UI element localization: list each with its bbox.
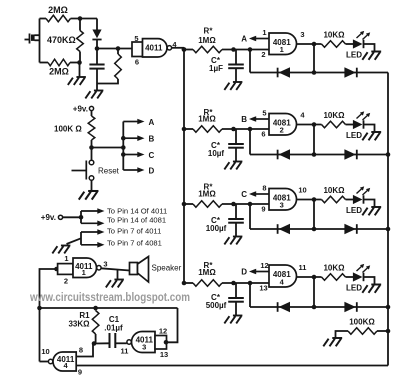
op-amp U2b 4081 AND gate 2 xyxy=(269,114,297,136)
svg-text:100KΩ: 100KΩ xyxy=(349,318,375,327)
svg-text:13: 13 xyxy=(259,284,267,293)
label To Pin 14 of 4081 xyxy=(107,216,166,225)
diode feedback left stage C xyxy=(278,224,290,234)
node dot cap tap stage C xyxy=(231,202,236,207)
svg-text:3: 3 xyxy=(142,343,146,352)
label .01uf xyxy=(104,324,123,333)
wire rail to R* stage D xyxy=(184,282,193,284)
op-amp U2d 4081 AND gate 4 xyxy=(269,265,297,287)
svg-text:D: D xyxy=(149,167,155,176)
node dot under 100K xyxy=(89,145,94,150)
label +9v top xyxy=(73,105,88,114)
label 1M ohm stage D xyxy=(198,268,216,277)
svg-text:11: 11 xyxy=(121,347,129,356)
node dot feedback tap stage D xyxy=(248,281,253,286)
label 100K ohm bottom xyxy=(349,318,375,327)
arrow to B xyxy=(123,135,144,141)
pin label 3 stage A xyxy=(300,30,304,39)
op-amp U1d 4011 NAND gate 4 xyxy=(48,352,76,371)
wire gate output stage D xyxy=(297,276,322,278)
svg-text:To Pin 14 Of 4011: To Pin 14 Of 4011 xyxy=(107,207,167,216)
wire 100K to branch xyxy=(92,147,124,149)
label C* value stage D xyxy=(206,301,227,310)
svg-text:1: 1 xyxy=(262,28,266,37)
pin label 9 stage C xyxy=(261,205,265,214)
label R* stage B xyxy=(204,108,214,117)
wire 100K left to ground xyxy=(336,331,349,338)
svg-text:33KΩ: 33KΩ xyxy=(68,320,90,329)
wire bottom branch xyxy=(40,62,81,64)
node dot rail right stage D xyxy=(386,305,391,310)
wire feedback line stage C xyxy=(250,228,388,230)
wire split bar bottom xyxy=(80,232,82,245)
node dot rail stage D xyxy=(182,281,187,286)
label 1M ohm stage A xyxy=(198,36,216,45)
node dot rail stage B xyxy=(182,127,187,132)
label R* stage D xyxy=(204,261,214,270)
resistor R input vertical xyxy=(97,49,121,84)
LED stage A xyxy=(353,39,364,48)
LED arrows stage D xyxy=(357,264,371,273)
label A xyxy=(149,118,155,127)
node dot bottom xyxy=(77,60,82,65)
LED stage B xyxy=(353,120,364,129)
label C* value stage A xyxy=(209,64,223,73)
wire gate output stage B xyxy=(297,124,322,126)
capacitor C* stage A xyxy=(228,50,244,83)
svg-text:A: A xyxy=(149,118,155,127)
pin label 4 xyxy=(172,40,177,49)
resistor R top 2M xyxy=(46,15,71,22)
arrow to pin7 4081 xyxy=(81,242,105,248)
svg-text:5: 5 xyxy=(262,109,266,118)
ground LED stage D xyxy=(362,285,381,293)
label To Pin 7 of 4081 xyxy=(107,239,162,248)
svg-text:.01µf: .01µf xyxy=(104,324,123,333)
node dot feedback mid stage D xyxy=(312,305,317,310)
label node letter C xyxy=(241,190,247,199)
wire rail to R* stage C xyxy=(184,203,193,205)
pin label 12 gate3 xyxy=(159,327,167,336)
diode feedback right stage A xyxy=(344,67,356,77)
op-amp U1a 4011 NAND gate 1 xyxy=(73,258,101,278)
svg-text:10: 10 xyxy=(298,186,306,195)
svg-text:8: 8 xyxy=(79,346,83,355)
node dot feedback mid stage C xyxy=(312,227,317,232)
svg-text:+9v.: +9v. xyxy=(41,213,56,222)
svg-text:LED: LED xyxy=(346,131,362,140)
wire 100K right xyxy=(377,330,388,332)
capacitor C* stage B xyxy=(228,129,244,162)
svg-text:10KΩ: 10KΩ xyxy=(323,186,345,195)
svg-text:1MΩ: 1MΩ xyxy=(198,36,216,45)
svg-text:3: 3 xyxy=(280,201,284,210)
svg-text:1MΩ: 1MΩ xyxy=(198,268,216,277)
svg-text:D: D xyxy=(241,268,247,277)
svg-text:R*: R* xyxy=(204,27,214,36)
wire button to ground xyxy=(91,180,93,191)
svg-text:1: 1 xyxy=(280,45,284,54)
node dot feedback tap stage A xyxy=(248,47,253,52)
label To Pin 14 Of 4011 xyxy=(107,207,167,216)
svg-text:1: 1 xyxy=(64,254,68,263)
wire LED to ground stage A xyxy=(364,44,375,52)
svg-text:LED: LED xyxy=(346,284,362,293)
capacitor C input xyxy=(89,49,104,91)
wire output to feedback stage C xyxy=(313,200,315,230)
ground LED stage A xyxy=(362,52,381,60)
svg-text:B: B xyxy=(149,135,155,144)
node dot output stage D xyxy=(312,275,317,280)
wire feedback drop stage A xyxy=(249,50,251,73)
wire gate4 output xyxy=(40,361,49,363)
arrow node A xyxy=(249,36,269,42)
label node letter D xyxy=(241,268,247,277)
wire 10K to LED stage C xyxy=(346,199,354,201)
label LED stage C xyxy=(346,206,362,215)
wire output to feedback stage B xyxy=(313,125,315,155)
wire top branch xyxy=(40,18,98,20)
pin label 2 gate1 xyxy=(64,277,68,286)
arrow to pin14 4011 xyxy=(81,208,105,214)
svg-text:1MΩ: 1MΩ xyxy=(198,115,216,124)
wire 100K to button xyxy=(91,148,93,161)
node dot rail right stage B xyxy=(386,152,391,157)
svg-text:12: 12 xyxy=(260,261,268,270)
svg-text:11: 11 xyxy=(299,263,307,272)
wire output to feedback stage D xyxy=(313,277,315,307)
svg-text:2MΩ: 2MΩ xyxy=(48,5,68,15)
diode feedback right stage B xyxy=(344,149,356,159)
pin label 8 gate4 xyxy=(79,346,83,355)
pin label 5 stage B xyxy=(262,109,266,118)
pin label 11 gate3 xyxy=(121,347,129,356)
op-amp U2c 4081 AND gate 3 xyxy=(269,189,297,211)
arrow to A xyxy=(123,119,144,125)
wire main rail vertical xyxy=(183,50,185,284)
svg-text:100K Ω: 100K Ω xyxy=(54,125,82,134)
capacitor C* stage D xyxy=(228,283,244,316)
wire gate4 pin8 xyxy=(76,344,93,357)
node dot +9v split xyxy=(79,215,84,220)
op-amp U2a 4081 AND gate 1 xyxy=(269,33,297,55)
node dot cap tap stage A xyxy=(231,47,236,52)
wire gate2 output xyxy=(172,48,184,50)
svg-text:LED: LED xyxy=(346,206,362,215)
node dot branch C xyxy=(121,152,126,157)
label node letter A xyxy=(241,35,247,44)
diode feedback right stage D xyxy=(344,302,356,312)
node dot rail right stage C xyxy=(386,227,391,232)
node dot top wire left xyxy=(37,306,42,311)
wire node to gate xyxy=(97,48,132,50)
wire gate4 pin9 bottom xyxy=(76,365,388,367)
label C xyxy=(149,151,155,160)
pin label 12 stage D xyxy=(260,261,268,270)
svg-text:4: 4 xyxy=(300,111,305,120)
diode feedback right stage C xyxy=(344,224,356,234)
wire LED to ground stage B xyxy=(364,125,375,133)
svg-text:10µf: 10µf xyxy=(208,149,225,158)
wire split bar top xyxy=(80,211,82,223)
label C* stage D xyxy=(211,293,221,302)
wire R* to gate stage A xyxy=(222,49,269,51)
wire feedback drop stage C xyxy=(249,204,251,229)
resistor R bottom 2M xyxy=(48,59,70,66)
wire gate output stage A xyxy=(297,43,322,45)
node dot output stage C xyxy=(312,197,317,202)
ground input network cap xyxy=(85,91,103,99)
pin label 2 stage A xyxy=(261,50,265,59)
label 10K ohm stage D xyxy=(323,264,345,273)
svg-text:2: 2 xyxy=(280,126,284,135)
svg-text:To Pin 7 of 4011: To Pin 7 of 4011 xyxy=(107,227,161,236)
svg-text:Speaker: Speaker xyxy=(152,264,182,273)
pin label 5 xyxy=(134,34,138,43)
op-amp U1c 4011 NAND gate 3 xyxy=(127,332,155,353)
node dot feedback tap stage C xyxy=(248,202,253,207)
node dot 100K rail xyxy=(386,329,391,334)
diode D input vertical xyxy=(92,19,101,49)
label 10K ohm stage C xyxy=(323,186,345,195)
pin label 1 stage A xyxy=(262,28,266,37)
label 10K ohm stage A xyxy=(323,31,345,40)
resistor 100K bottom xyxy=(348,328,377,335)
ground LED stage B xyxy=(362,132,381,140)
label R* stage A xyxy=(204,27,214,36)
svg-text:www.circuitsstream.blogspot.co: www.circuitsstream.blogspot.com xyxy=(29,290,190,304)
wire gnd diag xyxy=(67,238,82,244)
label R* stage C xyxy=(204,183,214,192)
svg-text:LED: LED xyxy=(346,51,362,60)
label LED stage A xyxy=(346,51,362,60)
svg-text:9: 9 xyxy=(261,205,265,214)
node dot R1 C1 junction xyxy=(92,341,97,346)
svg-text:1µF: 1µF xyxy=(209,64,223,73)
node dot output stage A xyxy=(312,42,317,47)
label 10K ohm stage B xyxy=(323,111,345,120)
node dot R1 top xyxy=(93,306,98,311)
wire feedback line stage A xyxy=(250,72,388,74)
resistor 10K stage D xyxy=(322,274,346,281)
wire 10K to LED stage B xyxy=(346,124,354,126)
pin label 1 gate1 xyxy=(64,254,68,263)
node dot gate3 input xyxy=(164,340,169,345)
wire gate3 input to rail xyxy=(166,308,178,342)
wire feedback line stage D xyxy=(250,306,388,308)
label To Pin 7 of 4011 xyxy=(107,227,161,236)
pushbutton reset xyxy=(72,160,94,180)
wire gate1 input xyxy=(40,269,57,308)
resistor R* 1M stage A xyxy=(193,46,222,53)
resistor R middle 470K vertical xyxy=(77,19,84,63)
wire LED to ground stage C xyxy=(364,200,375,208)
label C* stage A xyxy=(211,56,221,65)
input bracket gate3 xyxy=(155,336,167,350)
ground pin7 arrows xyxy=(52,246,70,254)
label LED stage B xyxy=(346,131,362,140)
arrow node D xyxy=(249,269,269,275)
arrow node B xyxy=(249,116,269,122)
op-amp U1b 4011 NAND xyxy=(143,39,172,57)
wire 10K to LED stage A xyxy=(346,43,354,45)
pin label 6 xyxy=(135,58,139,67)
input bracket gate1 xyxy=(58,264,73,275)
LED arrows stage C xyxy=(357,186,371,195)
label 2M ohm bottom xyxy=(49,67,69,77)
svg-text:8: 8 xyxy=(262,184,266,193)
pin label 3 gate1 xyxy=(103,260,107,269)
ground C* stage B xyxy=(224,162,242,170)
wire feedback drop stage B xyxy=(249,129,251,155)
ground C* stage C xyxy=(224,237,242,245)
node dot cap tap stage D xyxy=(231,281,236,286)
diode feedback left stage B xyxy=(278,149,290,159)
node dot res tap xyxy=(116,46,121,51)
svg-text:+9v.: +9v. xyxy=(73,105,88,114)
svg-text:500µf: 500µf xyxy=(206,301,227,310)
wire rail to R* stage B xyxy=(184,128,193,130)
pin label 4 stage B xyxy=(300,111,305,120)
wire rail to R* stage A xyxy=(184,49,193,51)
watermark text xyxy=(29,290,190,304)
wire R* to gate stage B xyxy=(222,128,269,130)
terminal +9v top xyxy=(89,106,93,110)
label LED stage D xyxy=(346,284,362,293)
label C* value stage C xyxy=(206,224,227,233)
label 1M ohm stage C xyxy=(198,190,216,199)
label C* stage C xyxy=(211,216,221,225)
wire right rail vertical xyxy=(387,73,389,366)
svg-text:10KΩ: 10KΩ xyxy=(323,264,345,273)
wire left vertical input node xyxy=(39,19,41,63)
wire left vertical to gate4 xyxy=(39,308,41,362)
svg-text:470KΩ: 470KΩ xyxy=(47,35,76,45)
label B xyxy=(149,135,155,144)
pin label 11 stage D xyxy=(299,263,307,272)
diode feedback left stage A xyxy=(278,67,290,77)
arrow node C xyxy=(249,191,269,197)
resistor 10K stage B xyxy=(322,121,346,128)
svg-text:A: A xyxy=(241,35,247,44)
diode feedback left stage D xyxy=(278,302,290,312)
svg-text:10: 10 xyxy=(41,347,49,356)
wire stem to ground bottom node xyxy=(79,63,81,78)
node dot main rail top xyxy=(182,47,187,52)
label 470K ohm xyxy=(47,35,76,45)
capacitor C* stage C xyxy=(228,204,244,237)
resistor R* 1M stage D xyxy=(193,280,222,287)
svg-text:100µf: 100µf xyxy=(206,224,227,233)
label +9v bottom xyxy=(41,213,56,222)
svg-text:C: C xyxy=(149,151,155,160)
label node letter B xyxy=(241,115,247,124)
resistor 10K stage C xyxy=(322,196,346,203)
LED arrows stage A xyxy=(357,31,371,40)
label Speaker xyxy=(152,264,182,273)
arrow to pin7 4011 xyxy=(81,229,105,235)
wire R* to gate stage D xyxy=(222,282,269,284)
label C* value stage B xyxy=(208,149,225,158)
arrow to D xyxy=(123,167,144,173)
svg-text:C: C xyxy=(241,190,247,199)
svg-text:6: 6 xyxy=(261,130,265,139)
pin label 13 stage D xyxy=(259,284,267,293)
resistor 10K stage A xyxy=(322,41,346,48)
node dot rail stage A xyxy=(182,47,187,52)
svg-text:4011: 4011 xyxy=(145,44,163,53)
svg-text:2MΩ: 2MΩ xyxy=(49,67,69,77)
ground input network bottom xyxy=(68,77,86,85)
wire speaker gnd tap xyxy=(117,270,119,280)
label 1M ohm stage B xyxy=(198,115,216,124)
label 100K ohm xyxy=(54,125,82,134)
label R1 xyxy=(79,311,90,320)
pin label 9 gate4 xyxy=(78,368,82,377)
LED stage C xyxy=(353,195,364,204)
LED stage D xyxy=(353,272,364,281)
wire +9v to split xyxy=(63,216,81,218)
ground LED stage C xyxy=(362,207,381,215)
ground C* stage D xyxy=(224,316,242,324)
capacitor C1 xyxy=(94,333,127,348)
wire output to feedback stage A xyxy=(313,44,315,73)
pin label 8 stage C xyxy=(262,184,266,193)
svg-text:10KΩ: 10KΩ xyxy=(323,111,345,120)
ground 100K xyxy=(323,338,342,346)
node dot branch feed xyxy=(121,145,126,150)
svg-text:6: 6 xyxy=(135,58,139,67)
wire branch vertical xyxy=(122,122,124,171)
label C1 xyxy=(109,315,120,324)
node dot gate1 input xyxy=(54,267,59,272)
terminal +9v bottom xyxy=(58,215,62,219)
label D xyxy=(149,167,155,176)
node dot feedback mid stage B xyxy=(312,152,317,157)
pin label 6 stage B xyxy=(261,130,265,139)
wire R* to gate stage C xyxy=(222,203,269,205)
node dot branch B xyxy=(121,136,126,141)
label 2M ohm top xyxy=(48,5,68,15)
svg-text:To Pin 14 of 4081: To Pin 14 of 4081 xyxy=(107,216,166,225)
svg-text:10KΩ: 10KΩ xyxy=(323,31,345,40)
resistor R* 1M stage B xyxy=(193,126,222,133)
label C* stage B xyxy=(211,141,221,150)
node dot diode bottom xyxy=(95,46,100,51)
svg-text:3: 3 xyxy=(300,30,304,39)
wire 10K to LED stage D xyxy=(346,276,354,278)
pin label 13 gate3 xyxy=(160,350,168,359)
resistor 100K vertical xyxy=(88,111,95,148)
node dot output stage B xyxy=(312,122,317,127)
arrow to C xyxy=(123,152,144,158)
svg-text:9: 9 xyxy=(78,368,82,377)
label Reset xyxy=(98,167,120,176)
arrow to pin14 4081 xyxy=(81,221,105,227)
wire feedback line stage B xyxy=(250,154,388,156)
node dot feedback mid stage A xyxy=(312,70,317,75)
wire gate output stage C xyxy=(297,199,322,201)
svg-text:2: 2 xyxy=(64,277,68,286)
ground speaker xyxy=(106,280,124,288)
microphone/transducer input MIC1 xyxy=(25,34,40,44)
wire bottom-left top xyxy=(40,307,178,309)
wire LED to ground stage D xyxy=(364,277,375,285)
wire gate1 to speaker xyxy=(101,268,130,270)
svg-text:Reset: Reset xyxy=(98,167,120,176)
node dot feedback tap stage B xyxy=(248,127,253,132)
label 33K ohm xyxy=(68,320,90,329)
